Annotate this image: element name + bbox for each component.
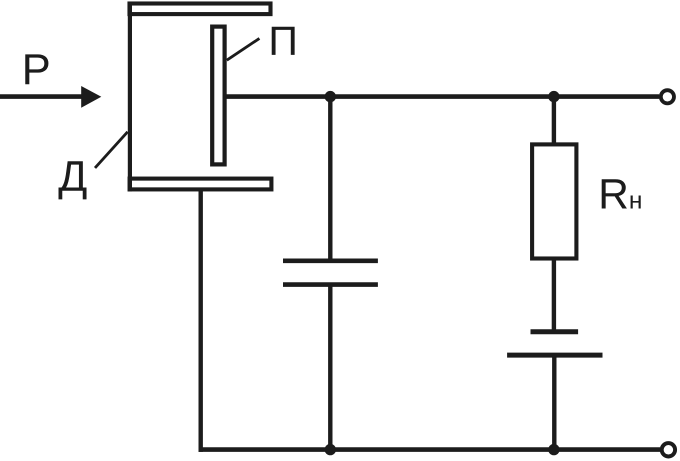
terminal bottom <box>662 443 675 456</box>
sensor D left wall <box>128 2 132 192</box>
wire capacitor branch upper <box>328 97 332 261</box>
wire bottom rail <box>199 447 661 452</box>
wire sensor down lead <box>198 190 202 452</box>
piezo plate P (element) <box>212 27 224 165</box>
pressure arrowhead <box>81 86 101 108</box>
wire capacitor branch lower <box>328 285 332 450</box>
label Pi (plate) <box>272 27 295 55</box>
node junction resistor top <box>548 91 559 102</box>
label Rn <box>602 179 641 208</box>
label D (sensor) <box>59 161 87 199</box>
sensor D bottom plate <box>130 179 272 190</box>
battery short plate <box>531 329 579 334</box>
wire resistor branch upper <box>552 97 556 144</box>
terminal top <box>661 90 674 103</box>
pressure arrow shaft <box>0 94 83 99</box>
wire battery to bottom rail <box>552 355 556 450</box>
wire top rail <box>227 94 660 99</box>
node junction capacitor bottom <box>325 444 336 455</box>
capacitor bottom plate <box>283 282 378 287</box>
leader line to label P(plate) <box>227 38 260 60</box>
battery long plate <box>507 353 602 358</box>
node junction capacitor top <box>325 91 336 102</box>
leader line to label D <box>95 132 128 168</box>
capacitor top plate <box>283 258 378 263</box>
sensor D top plate <box>130 4 271 15</box>
node junction battery bottom <box>548 444 559 455</box>
resistor Rn body <box>532 144 576 258</box>
label P <box>25 54 48 84</box>
wire resistor to battery <box>552 259 556 332</box>
